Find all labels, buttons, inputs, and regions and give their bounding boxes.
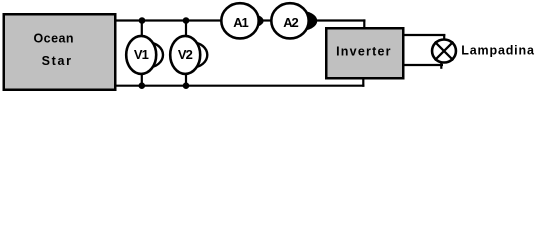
wire: between A1 and A2 (258, 19, 272, 21)
svg-text:Lampadina: Lampadina (461, 44, 535, 58)
node: junction dot bottom rail / V1 (139, 82, 146, 89)
voltmeter V1 duplicate outline (offset right) (133, 42, 163, 67)
wire: V2 bottom stub (185, 73, 187, 86)
node: junction dot bottom rail / V2 (183, 82, 190, 89)
wire: V2 top stub (185, 21, 187, 38)
wire: vertical drop into Inverter top (363, 19, 365, 28)
svg-text:V1: V1 (134, 47, 149, 62)
battery box "Ocean Star" (4, 14, 116, 90)
voltmeter V2 duplicate outline (offset right) (177, 42, 207, 67)
wire: A2 to corner above Inverter (308, 19, 365, 21)
inverter box "Inverter" (326, 28, 403, 78)
ammeter A1 (221, 3, 258, 38)
svg-text:A2: A2 (283, 15, 298, 30)
node: junction dot top wire / V1 (139, 17, 146, 24)
wire: lamp bottom stub (440, 62, 442, 69)
svg-text:A1: A1 (233, 15, 248, 30)
wire: Inverter right to lamp top (403, 34, 445, 36)
wire: V1 bottom stub (141, 73, 143, 86)
node: junction dot top wire / V2 (183, 17, 190, 24)
wire: bottom rail (115, 85, 364, 87)
ammeter A2 (271, 3, 308, 38)
wire: lamp bottom return connector to Inverter right (403, 64, 443, 66)
voltmeter V1 (126, 36, 156, 74)
ammeter A1 duplicate outline (offset right) (226, 13, 263, 29)
wire: drop into lamp top (443, 34, 445, 41)
svg-text:Inverter: Inverter (336, 45, 391, 59)
ammeter A2 duplicate outline (offset right) (280, 10, 317, 31)
svg-text:Ocean: Ocean (34, 32, 74, 46)
voltmeter V2 (170, 36, 200, 74)
svg-text:V2: V2 (178, 47, 193, 62)
wire: top bus from Ocean Star box to A1 (115, 19, 221, 21)
lamp (circle with X) (432, 40, 456, 63)
wire: V1 top stub (141, 21, 143, 38)
wire: bottom rail riser into Inverter bottom (362, 78, 364, 87)
